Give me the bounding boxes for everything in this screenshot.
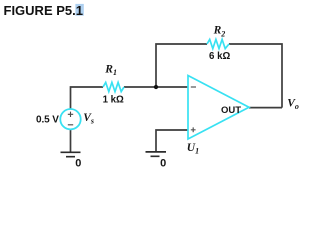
wire Vs bottom to ground (70, 129, 72, 152)
svg-text:1 kΩ: 1 kΩ (103, 95, 124, 106)
svg-text:U1: U1 (187, 142, 199, 156)
wire op-amp noninverting input to ground corner (156, 130, 188, 152)
svg-text:R1: R1 (104, 63, 117, 77)
svg-text:OUT: OUT (221, 105, 241, 116)
op-amp U1 (188, 76, 249, 140)
svg-text:6 kΩ: 6 kΩ (209, 51, 230, 62)
svg-text:0: 0 (75, 157, 81, 169)
resistor R1 (103, 82, 124, 91)
svg-text:FIGURE P5.1: FIGURE P5.1 (4, 3, 83, 18)
wire feedback: node up, top run to R2 (156, 44, 207, 87)
node junction dot at inverting input (154, 85, 158, 89)
ground 0 (right, under noninverting input) (146, 152, 167, 156)
wire from Vs top to R1 (left vertical and horizontal input segment) (71, 87, 104, 109)
ground 0 (left, under Vs) (61, 152, 81, 156)
wire from R1 to op-amp inverting input (124, 86, 188, 88)
svg-text:Vo: Vo (287, 97, 299, 111)
svg-text:0.5 V: 0.5 V (36, 114, 59, 125)
svg-text:Vs: Vs (83, 112, 94, 126)
wire from R2 right along top and down right side (229, 44, 282, 108)
svg-text:0: 0 (160, 157, 166, 169)
resistor R2 (207, 39, 229, 48)
svg-text:R2: R2 (213, 25, 226, 39)
voltage source Vs (60, 109, 80, 129)
title FIGURE P5.1 highlight on digit 1 (75, 4, 83, 16)
wire op-amp output to right vertical (249, 107, 282, 109)
